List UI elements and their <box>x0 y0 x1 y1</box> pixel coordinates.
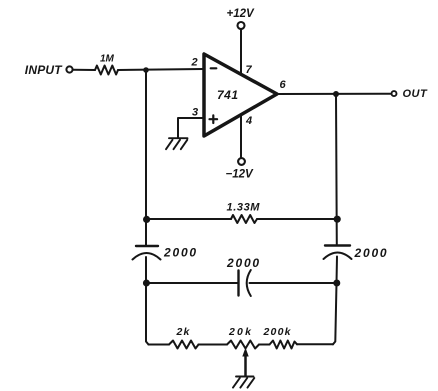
resistor R5 200k <box>270 341 298 349</box>
resistor R3 2k <box>169 341 199 349</box>
op-amp U1 741 body <box>204 54 277 136</box>
svg-text:1M: 1M <box>100 54 115 65</box>
wire <box>259 344 270 346</box>
wire pin 7 to +12V <box>240 30 242 74</box>
svg-text:−12V: −12V <box>226 169 255 181</box>
input terminal <box>66 66 72 72</box>
resistor R2 1.33M <box>231 215 257 223</box>
wire right rail lower <box>333 257 337 345</box>
-12V terminal <box>238 158 245 165</box>
wire output <box>277 93 391 95</box>
potentiometer R4 20k <box>227 341 259 349</box>
svg-text:741: 741 <box>217 88 239 102</box>
wire right rail upper <box>335 94 338 246</box>
svg-text:7: 7 <box>246 64 253 76</box>
+12V terminal <box>238 22 245 29</box>
wire 1.33M row left <box>146 218 231 220</box>
svg-text:2: 2 <box>191 57 198 69</box>
svg-text:3: 3 <box>192 107 198 119</box>
svg-text:OUT: OUT <box>403 88 429 100</box>
svg-text:6: 6 <box>280 79 287 91</box>
svg-text:200k: 200k <box>263 326 292 338</box>
capacitor C2 2000 (right rail) <box>325 244 350 246</box>
node <box>143 280 150 287</box>
wire cap row right <box>250 282 338 284</box>
capacitor C1 2000 (left rail) <box>136 245 158 247</box>
svg-text:+12V: +12V <box>227 8 256 20</box>
wire <box>297 343 333 345</box>
wire <box>199 344 228 346</box>
wire left rail lower <box>146 257 149 345</box>
svg-text:20k: 20k <box>228 326 253 338</box>
pot wiper arrow <box>244 355 247 376</box>
svg-text:2000: 2000 <box>163 246 198 260</box>
node: output junction <box>333 91 339 97</box>
wire input to resistor <box>73 69 95 71</box>
wire 1.33M row right <box>257 218 337 220</box>
svg-text:2000: 2000 <box>354 246 389 260</box>
ground (pot wiper) <box>233 377 254 388</box>
output terminal <box>392 91 397 96</box>
svg-text:2k: 2k <box>176 326 191 338</box>
capacitor C3 2000 (series) <box>237 271 239 296</box>
svg-text:4: 4 <box>245 115 252 127</box>
node: input junction <box>143 67 149 73</box>
resistor R1 1M <box>95 66 118 75</box>
wire resistor to op-amp pin 2 <box>118 69 203 70</box>
op-amp minus input mark <box>211 67 217 69</box>
wire pin 3 stub <box>178 118 204 138</box>
wire pin 4 to -12V <box>240 115 242 158</box>
wire bottom row left <box>149 344 170 346</box>
node <box>333 280 340 287</box>
wire left rail upper <box>145 70 147 246</box>
node <box>143 216 150 223</box>
svg-text:2000: 2000 <box>226 256 261 270</box>
node <box>334 216 341 223</box>
svg-text:INPUT: INPUT <box>25 63 63 77</box>
op-amp plus input mark <box>210 115 218 123</box>
svg-text:1.33M: 1.33M <box>227 202 261 214</box>
ground (pin 3) <box>166 138 188 149</box>
wire cap row left <box>146 282 238 284</box>
